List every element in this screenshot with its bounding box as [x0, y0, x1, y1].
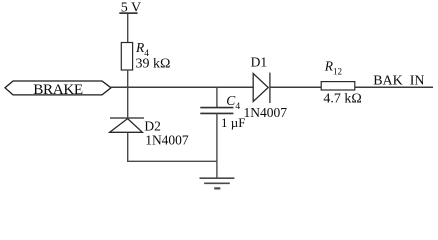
wire node B to C4: [216, 87, 218, 107]
svg-text:39 kΩ: 39 kΩ: [136, 56, 171, 71]
svg-text:BAK IN: BAK IN: [373, 73, 424, 88]
wire D1 to R12: [270, 86, 321, 88]
diode D2: [110, 118, 144, 132]
wire 5V to R4: [127, 14, 129, 43]
svg-text:4.7 kΩ: 4.7 kΩ: [323, 92, 361, 107]
capacitor C4: [200, 108, 233, 114]
diode D1: [253, 73, 270, 103]
resistor R4: [121, 43, 132, 71]
svg-text:1N4007: 1N4007: [244, 105, 288, 120]
node BRAKE: [5, 81, 111, 98]
svg-text:D1: D1: [251, 54, 268, 69]
wire R12 to BAK IN: [355, 86, 433, 88]
wire R4 to node A: [127, 70, 129, 87]
wire node A to D2: [127, 87, 129, 118]
ground: [200, 178, 235, 188]
svg-text:1 µF: 1 µF: [221, 115, 245, 130]
resistor R12: [321, 82, 355, 90]
power 5V: [119, 0, 141, 15]
wire BRAKE to D1 (main): [111, 86, 253, 88]
svg-text:R12: R12: [324, 58, 342, 76]
svg-text:1N4007: 1N4007: [145, 132, 189, 147]
wire C4 to ground: [216, 114, 218, 178]
wire D2 to bottom rail: [128, 133, 217, 162]
svg-text:BRAKE: BRAKE: [33, 81, 83, 98]
svg-text:C4: C4: [226, 93, 240, 112]
